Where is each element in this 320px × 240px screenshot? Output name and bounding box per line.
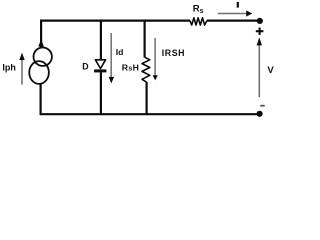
svg-text:Rs: Rs — [193, 3, 204, 14]
node top terminal dot — [257, 18, 263, 24]
wire bottom rail — [40, 113, 257, 115]
svg-text:V: V — [267, 65, 274, 76]
diode D — [94, 60, 106, 73]
wire left branch upper — [40, 20, 42, 48]
label I — [237, 2, 239, 8]
current source output arrowhead — [38, 39, 44, 46]
resistor RsH (vertical zigzag) — [142, 57, 150, 82]
current arrow I — [218, 10, 253, 16]
svg-text:D: D — [82, 61, 88, 71]
wire diode branch lower — [100, 72, 102, 115]
voltage arrow V — [257, 37, 262, 97]
label - — [260, 105, 264, 107]
diode current arrow Id — [109, 33, 114, 83]
wire shunt branch lower — [146, 82, 148, 115]
label + — [256, 28, 264, 35]
wire diode branch upper — [100, 20, 102, 60]
wire left branch lower — [39, 84, 41, 115]
svg-text:IRSH: IRSH — [162, 48, 185, 58]
wire shunt branch upper — [144, 20, 146, 58]
node bottom terminal dot — [257, 111, 263, 117]
svg-text:Id: Id — [116, 47, 124, 57]
wire top rail left section — [40, 20, 190, 22]
resistor Rs — [190, 18, 207, 25]
Iph reference arrow — [19, 53, 24, 85]
shunt current arrow IRSH — [153, 38, 158, 80]
svg-text:Iph: Iph — [2, 63, 16, 73]
wire top rail right section — [207, 20, 258, 22]
current source Iph (two overlapping circles) — [34, 48, 52, 66]
